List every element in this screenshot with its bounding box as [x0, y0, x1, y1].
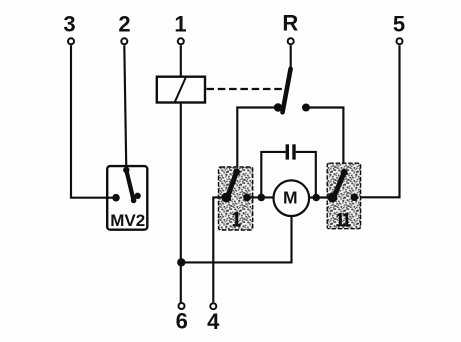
switch MV2 pivot contact	[123, 167, 129, 173]
switch MV2 left contact	[112, 194, 120, 202]
capacitor C1 right lead	[296, 152, 316, 198]
terminal 3	[68, 38, 74, 44]
switch R blade	[283, 69, 291, 113]
relay box K1 (thermal interrupter)	[157, 77, 205, 103]
MV2 box	[107, 166, 147, 230]
switch R left contact	[274, 103, 282, 111]
switch II blade	[334, 172, 344, 197]
terminal 1	[178, 38, 184, 44]
relay box diagonal	[175, 77, 186, 102]
wire terminal R to switch blade	[290, 45, 292, 70]
wire motor right to brush II	[309, 196, 334, 198]
wire motor bottom to junction node A	[181, 216, 291, 263]
svg-text:M: M	[283, 187, 298, 207]
node motor armature left	[243, 194, 251, 202]
junction node A on wire 1-6	[177, 258, 185, 266]
switch II brush contact	[328, 193, 338, 203]
svg-text:R: R	[282, 10, 298, 35]
switch I blade	[227, 172, 236, 198]
terminal 6	[179, 303, 185, 309]
wire terminal 5 to switch II right contact	[358, 45, 400, 197]
label I	[233, 212, 241, 225]
switch MV2 blade tip	[131, 198, 137, 204]
switch R right contact	[302, 104, 310, 112]
terminal 4	[210, 303, 216, 309]
terminal 5	[397, 38, 403, 44]
wire terminal 1 continues down to terminal 6	[180, 103, 182, 303]
switch I pivot contact	[233, 168, 240, 175]
switch II right contact	[351, 194, 359, 202]
wire terminal 2 to MV2 switch pivot	[124, 45, 126, 170]
wire terminal 1 to relay box top	[180, 45, 182, 76]
svg-text:2: 2	[118, 12, 130, 37]
node capacitor left junction	[258, 194, 266, 202]
motor M1	[274, 180, 310, 216]
capacitor C1 plates	[286, 144, 289, 159]
switch I brush contact	[221, 193, 231, 203]
contact plate I box (stippled)	[219, 167, 253, 230]
switch II pivot contact	[341, 169, 348, 176]
svg-text:1: 1	[174, 12, 186, 37]
svg-text:3: 3	[63, 12, 75, 37]
terminal 2	[121, 38, 127, 44]
wire brush I to terminal 4	[213, 197, 226, 302]
wire switch R right contact to contact plate II	[306, 108, 343, 173]
label II	[336, 213, 350, 225]
dashed actuation link from relay to switch R	[207, 88, 284, 90]
terminal R	[288, 38, 294, 44]
wire terminal 3 to MV2 left contact	[71, 45, 114, 197]
node capacitor right junction	[312, 194, 320, 202]
svg-text:MV2: MV2	[110, 211, 145, 230]
switch MV2 blade	[126, 170, 133, 200]
svg-text:5: 5	[393, 12, 405, 37]
svg-text:4: 4	[207, 309, 220, 334]
wire switch R left contact to contact plate I	[237, 108, 278, 172]
svg-text:6: 6	[176, 309, 188, 334]
wire armature contact I to motor	[244, 196, 275, 198]
contact plate II box (stippled)	[327, 163, 360, 229]
capacitor C1 left lead	[261, 152, 285, 198]
switch MV2 right contact	[134, 193, 140, 199]
